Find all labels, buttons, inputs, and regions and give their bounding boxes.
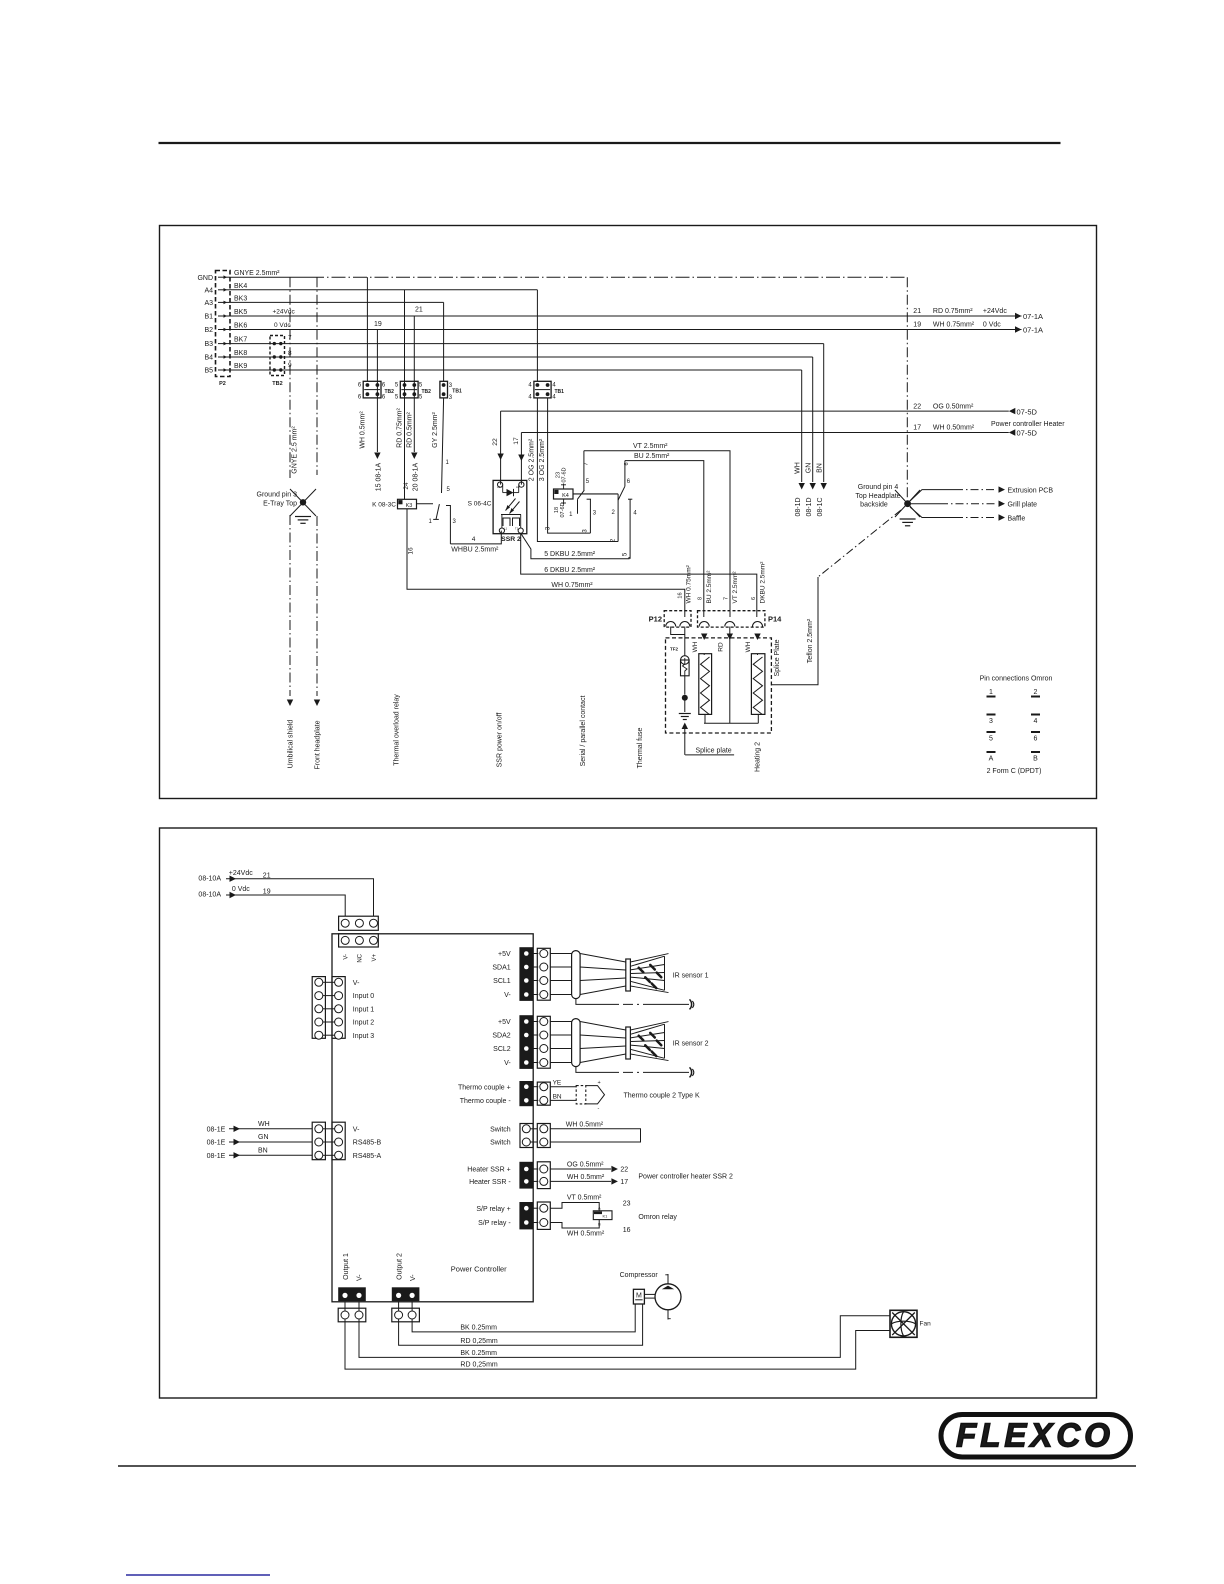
logo FLEXCO	[941, 1415, 1131, 1458]
svg-text:E-Tray Top: E-Tray Top	[263, 501, 297, 508]
wire 6 DKBU 2.5mm	[521, 533, 757, 617]
svg-text:BN: BN	[258, 1147, 268, 1154]
wire BU drop arrow	[701, 634, 707, 641]
svg-text:OG 0.50mm²: OG 0.50mm²	[933, 403, 974, 410]
connector output1	[338, 1287, 366, 1301]
svg-text:Power controller heater SSR 2: Power controller heater SSR 2	[638, 1173, 733, 1180]
svg-text:+24Vdc: +24Vdc	[983, 308, 1007, 315]
svg-text:Splice Plate: Splice Plate	[774, 639, 781, 676]
svg-text:VT 0.5mm²: VT 0.5mm²	[567, 1195, 602, 1202]
svg-text:BK9: BK9	[234, 363, 247, 370]
wire A4/BK4 row	[230, 289, 537, 291]
svg-text:Baffle: Baffle	[1008, 516, 1026, 523]
svg-text:24: 24	[403, 482, 410, 490]
svg-text:17: 17	[913, 425, 921, 432]
wire 19 0Vdc to 07-1A	[1015, 326, 1022, 332]
wire umbilical shield dash-dot	[289, 277, 291, 478]
relay K3	[398, 499, 417, 509]
svg-text:Input 0: Input 0	[353, 993, 375, 1000]
svg-text:1: 1	[989, 689, 993, 696]
wire footer rule	[118, 1465, 1136, 1467]
wire A4 drop to TB1	[536, 290, 538, 382]
node splice plate callout	[682, 723, 688, 730]
svg-text:Ground pin 3: Ground pin 3	[257, 492, 298, 499]
svg-text:RD: RD	[718, 642, 725, 652]
svg-text:Teflon 2.5mm²: Teflon 2.5mm²	[807, 618, 814, 663]
svg-text:08-10A: 08-10A	[198, 876, 221, 883]
svg-text:B2: B2	[204, 327, 213, 334]
wire P12 link	[671, 627, 685, 635]
svg-text:21: 21	[913, 308, 921, 315]
node power controller outline	[332, 934, 533, 1302]
svg-text:GNYE 2.5 mm²: GNYE 2.5 mm²	[292, 426, 299, 474]
svg-text:Fan: Fan	[920, 1321, 932, 1328]
svg-text:4: 4	[472, 536, 476, 543]
fan F1	[890, 1310, 917, 1337]
switch K4 contact A	[577, 499, 579, 514]
svg-text:WH 0.5mm²: WH 0.5mm²	[567, 1174, 605, 1181]
svg-text:WH 0.75mm²: WH 0.75mm²	[686, 564, 693, 603]
svg-text:Heater SSR -: Heater SSR -	[469, 1179, 511, 1186]
svg-text:Umbilical shield: Umbilical shield	[288, 720, 295, 769]
connector supply V-/NC/V+	[339, 916, 379, 930]
wire 17 WH 0.50mm from 07-5D	[521, 432, 1008, 434]
svg-text:BU 2.5mm²: BU 2.5mm²	[706, 570, 713, 604]
svg-text:BK 0.25mm: BK 0.25mm	[460, 1324, 497, 1331]
svg-text:Power Controller: Power Controller	[451, 1265, 507, 1274]
svg-text:08-1D: 08-1D	[806, 497, 813, 516]
svg-text:A: A	[989, 756, 994, 763]
svg-text:Switch: Switch	[490, 1140, 511, 1147]
svg-text:TB2: TB2	[385, 389, 395, 395]
svg-text:Serial / parallel contact: Serial / parallel contact	[580, 696, 587, 767]
wire RD 0,25mm (4)	[345, 1319, 890, 1369]
svg-text:Output 1: Output 1	[343, 1253, 350, 1280]
wire 2 OG 2.5mm	[537, 398, 618, 542]
svg-text:WH: WH	[745, 641, 752, 652]
ground pin 4	[895, 490, 920, 517]
wire to grill plate	[911, 503, 940, 505]
svg-text:Grill plate: Grill plate	[1008, 502, 1038, 509]
svg-text:08-10A: 08-10A	[198, 892, 221, 899]
svg-text:RS485-B: RS485-B	[353, 1140, 382, 1147]
svg-text:+5V: +5V	[498, 951, 511, 958]
svg-text:Thermo couple 2 Type K: Thermo couple 2 Type K	[624, 1092, 700, 1099]
svg-text:A3: A3	[204, 300, 213, 307]
svg-text:SCL2: SCL2	[493, 1046, 511, 1053]
ground pin 3	[290, 489, 316, 516]
svg-text:SDA1: SDA1	[492, 965, 510, 972]
svg-text:Thermo couple -: Thermo couple -	[460, 1098, 512, 1105]
wire 22 OG drop to SSR	[500, 411, 502, 485]
svg-text:SSR power on/off: SSR power on/off	[497, 713, 504, 768]
svg-text:8: 8	[698, 597, 704, 600]
wire 21 +24Vdc to 07-1A	[1015, 313, 1022, 319]
svg-text:BK4: BK4	[234, 283, 247, 290]
svg-text:Splice plate: Splice plate	[696, 748, 732, 755]
svg-text:07-1A: 07-1A	[1023, 312, 1043, 321]
svg-text:A2-: A2-	[516, 485, 520, 489]
wire to baffle	[910, 507, 955, 518]
connector RS485	[312, 1122, 325, 1160]
svg-text:Thermal fuse: Thermal fuse	[637, 727, 644, 768]
svg-text:IR sensor 1: IR sensor 1	[673, 973, 709, 980]
wire front headplate dash-dot	[316, 277, 318, 475]
svg-text:21: 21	[415, 307, 423, 314]
wire B4/BK8 row	[230, 356, 813, 358]
wire GND/GNYE row	[230, 276, 310, 278]
svg-text:07-5D: 07-5D	[1017, 429, 1038, 438]
svg-text:23: 23	[623, 1200, 631, 1207]
svg-text:Input 3: Input 3	[353, 1033, 375, 1040]
svg-text:WH 0.5mm²: WH 0.5mm²	[567, 1230, 605, 1237]
wire header rule	[159, 142, 1061, 144]
connector thermocouple pins	[519, 1081, 533, 1106]
svg-text:Top Headplate: Top Headplate	[855, 493, 900, 500]
wire RD drop	[729, 627, 731, 724]
svg-text:Heating 2: Heating 2	[755, 742, 762, 772]
svg-text:6: 6	[751, 597, 757, 600]
svg-text:GNYE 2.5mm²: GNYE 2.5mm²	[234, 270, 280, 277]
sensor IR2	[550, 1021, 571, 1023]
svg-text:Output 2: Output 2	[397, 1253, 404, 1280]
wire to extrusion PCB	[910, 490, 955, 501]
wire RD 0,25mm (2)	[399, 1304, 643, 1345]
svg-text:22: 22	[620, 1167, 628, 1174]
connector P12	[664, 611, 691, 627]
svg-text:BK5: BK5	[234, 309, 247, 316]
svg-text:WHBU 2.5mm²: WHBU 2.5mm²	[451, 547, 499, 554]
svg-text:20 08-1A: 20 08-1A	[413, 462, 420, 491]
svg-text:NC: NC	[358, 953, 364, 962]
svg-text:-: -	[598, 1106, 600, 1112]
svg-text:16: 16	[623, 1227, 631, 1234]
svg-text:S/P relay +: S/P relay +	[476, 1206, 510, 1213]
svg-text:A4: A4	[204, 287, 213, 294]
wire K4 common	[573, 493, 618, 495]
wire B5/BK9 row	[230, 369, 802, 371]
wire A3/BK3 row	[230, 301, 444, 303]
svg-text:3: 3	[989, 718, 993, 725]
svg-text:IR sensor 2: IR sensor 2	[673, 1041, 709, 1048]
svg-text:M: M	[636, 1293, 642, 1300]
wire WH 0.5mm vertical	[366, 277, 368, 381]
wire DKBU drop arrow	[754, 634, 760, 641]
svg-text:19: 19	[263, 889, 271, 896]
svg-text:V-: V-	[504, 1060, 511, 1067]
wire BK 0.25mm (1)	[412, 1304, 635, 1332]
svg-text:07-6D: 07-6D	[562, 467, 568, 482]
connector IR1 pins	[519, 947, 533, 1001]
terminal block TB1 (4/4)	[534, 381, 551, 398]
connector output2	[392, 1287, 420, 1301]
node top schematic frame	[160, 226, 1097, 799]
terminal block TB2 (6/6)	[363, 381, 381, 398]
svg-text:T1: T1	[515, 527, 519, 531]
wire B3/BK7 row	[230, 343, 824, 345]
svg-text:RD 0.75mm²: RD 0.75mm²	[933, 308, 973, 315]
svg-text:22: 22	[913, 403, 921, 410]
svg-text:B1: B1	[204, 314, 213, 321]
relay omron K	[550, 1203, 599, 1211]
svg-text:SCL1: SCL1	[493, 978, 511, 985]
svg-text:2 Form C (DPDT): 2 Form C (DPDT)	[987, 768, 1042, 775]
svg-text:7: 7	[584, 462, 590, 465]
svg-text:A1+: A1+	[497, 485, 502, 489]
wire WH drop to 08-1D	[801, 370, 803, 482]
svg-text:WH 0.75mm²: WH 0.75mm²	[551, 582, 593, 589]
svg-text:OG 0.5mm²: OG 0.5mm²	[567, 1162, 604, 1169]
svg-text:K1: K1	[603, 1213, 609, 1218]
thermal fuse TF2	[684, 627, 686, 656]
terminal block TB1 (3/3)	[440, 381, 448, 398]
solid state relay SSR2	[493, 480, 527, 533]
svg-text:Extrusion PCB: Extrusion PCB	[1008, 488, 1054, 495]
wire BN drop to 08-1C	[823, 344, 825, 482]
svg-text:Power controller Heater: Power controller Heater	[991, 421, 1065, 428]
svg-text:L1: L1	[504, 527, 508, 531]
svg-text:P14: P14	[768, 615, 782, 624]
node bottom schematic frame	[160, 828, 1097, 1398]
svg-text:GN: GN	[258, 1134, 269, 1141]
svg-text:0 Vdc: 0 Vdc	[983, 322, 1001, 329]
svg-text:V+: V+	[372, 954, 378, 962]
svg-text:BK3: BK3	[234, 295, 247, 302]
svg-text:08-1D: 08-1D	[795, 497, 802, 516]
svg-text:08-1E: 08-1E	[207, 1126, 226, 1133]
svg-text:GY 2.5mm²: GY 2.5mm²	[432, 412, 439, 448]
switch K4 contact B	[617, 494, 619, 542]
svg-text:Pin connections Omron: Pin connections Omron	[980, 676, 1053, 683]
wire WH 0.5mm 17	[550, 1180, 611, 1182]
svg-text:2 OG 2.5mm²: 2 OG 2.5mm²	[529, 438, 536, 481]
svg-text:17: 17	[620, 1179, 628, 1186]
wire OG 0.5mm 22	[550, 1168, 611, 1170]
svg-text:V-: V-	[410, 1274, 417, 1281]
wire RD 0.75mm vertical (to K3)	[404, 290, 406, 500]
svg-text:4: 4	[1034, 718, 1038, 725]
svg-text:6: 6	[1034, 736, 1038, 743]
heater R2	[751, 654, 765, 715]
wire GY 2.5mm vertical	[443, 302, 445, 381]
wire 22 OG 0.50mm from 07-5D	[501, 410, 1009, 412]
svg-text:08-1E: 08-1E	[207, 1140, 226, 1147]
wire GN drop to 08-1D	[812, 357, 814, 482]
svg-text:WH: WH	[258, 1121, 270, 1128]
wire teflon shield elbow	[818, 510, 901, 577]
svg-text:backside: backside	[860, 502, 888, 509]
sensor IR1	[550, 953, 571, 955]
svg-text:V-: V-	[353, 1126, 360, 1133]
svg-text:Switch: Switch	[490, 1126, 511, 1133]
svg-text:0 Vdc: 0 Vdc	[274, 322, 291, 329]
svg-text:GND: GND	[197, 275, 213, 282]
svg-text:6: 6	[624, 462, 630, 465]
svg-text:08-1E: 08-1E	[207, 1153, 226, 1160]
svg-text:K4: K4	[562, 493, 569, 499]
svg-text:RD 0,25mm: RD 0,25mm	[460, 1338, 498, 1345]
svg-text:V-: V-	[357, 1274, 364, 1281]
svg-text:+24Vdc: +24Vdc	[229, 870, 253, 877]
svg-text:Input 1: Input 1	[353, 1006, 375, 1013]
node splice plate box	[666, 638, 772, 733]
terminal block TB2 (7/8/9)	[270, 336, 285, 376]
svg-text:22: 22	[492, 438, 499, 446]
connector S/P relay pins	[519, 1202, 533, 1229]
svg-text:Thermal overload relay: Thermal overload relay	[394, 694, 401, 766]
svg-text:+5V: +5V	[498, 1019, 511, 1026]
svg-text:19: 19	[374, 321, 382, 328]
svg-text:K3: K3	[406, 503, 413, 509]
svg-text:08-1C: 08-1C	[817, 497, 824, 516]
wire BK 0.25mm (3)	[359, 1316, 890, 1358]
relay K4	[554, 489, 574, 499]
svg-text:07-1A: 07-1A	[1023, 326, 1043, 335]
svg-text:+: +	[598, 1080, 601, 1086]
svg-text:BN: BN	[817, 463, 824, 473]
svg-text:Heater SSR +: Heater SSR +	[467, 1167, 510, 1174]
svg-text:7: 7	[723, 597, 729, 600]
wire RD 0.5mm vertical to arrow 20 08-1A	[413, 316, 415, 452]
svg-text:B5: B5	[204, 368, 213, 375]
svg-text:P12: P12	[649, 615, 662, 624]
svg-text:FLEXCO: FLEXCO	[956, 1417, 1114, 1454]
wire WHBU 2.5mm	[450, 531, 501, 544]
svg-text:TB1: TB1	[555, 389, 565, 395]
svg-text:17: 17	[513, 437, 520, 445]
svg-text:WH: WH	[692, 641, 699, 652]
svg-text:YE: YE	[553, 1080, 562, 1087]
svg-text:TF2: TF2	[670, 647, 678, 652]
svg-text:B3: B3	[204, 341, 213, 348]
connector heater SSR pins	[519, 1162, 533, 1189]
connector switch pins	[520, 1124, 533, 1148]
svg-text:BK8: BK8	[234, 350, 247, 357]
svg-text:07-6D: 07-6D	[560, 502, 566, 517]
svg-text:TB2: TB2	[422, 389, 432, 395]
svg-text:Front headplate: Front headplate	[315, 720, 322, 769]
svg-text:WH 0.75mm²: WH 0.75mm²	[933, 322, 975, 329]
svg-text:3 OG 2.5mm²: 3 OG 2.5mm²	[539, 438, 546, 481]
wire BU 2.5mm	[625, 461, 704, 617]
wire switch loop WH 0.5mm	[550, 1129, 640, 1142]
wire 5 DKBU 2.5mm	[521, 533, 629, 559]
svg-text:16: 16	[678, 592, 684, 598]
svg-text:RD 0.75mm²: RD 0.75mm²	[397, 408, 404, 448]
wire TF2 to ground	[684, 676, 686, 695]
svg-text:RD 0.5mm²: RD 0.5mm²	[407, 411, 414, 447]
svg-text:19: 19	[913, 322, 921, 329]
connector P14	[698, 611, 765, 627]
svg-text:A: A	[598, 1205, 601, 1210]
svg-text:S 06-4C: S 06-4C	[468, 501, 492, 508]
terminal block TB2 (5/5)	[400, 381, 418, 398]
wire VT 2.5mm	[584, 451, 730, 617]
svg-text:BK 0.25mm: BK 0.25mm	[460, 1350, 497, 1357]
svg-text:WH 0.50mm²: WH 0.50mm²	[933, 425, 975, 432]
svg-text:6 DKBU 2.5mm²: 6 DKBU 2.5mm²	[544, 567, 596, 574]
wire 3 OG 2.5mm	[548, 398, 591, 533]
wire footnote underline	[126, 1574, 270, 1576]
svg-text:GN: GN	[806, 463, 813, 474]
svg-text:V-: V-	[504, 992, 511, 999]
wire heater return bus	[704, 722, 758, 724]
wire K3 coil down / WH 0.75 line	[407, 509, 685, 617]
svg-text:VT 2.5mm²: VT 2.5mm²	[633, 443, 668, 450]
wire 17 WH drop to SSR	[520, 433, 522, 485]
svg-text:Compressor: Compressor	[620, 1272, 659, 1279]
svg-text:16: 16	[408, 547, 415, 555]
svg-text:WH 0.5mm²: WH 0.5mm²	[566, 1121, 604, 1128]
svg-text:15 08-1A: 15 08-1A	[376, 462, 383, 491]
svg-text:21: 21	[263, 873, 271, 880]
svg-text:DKBU 2.5mm²: DKBU 2.5mm²	[759, 561, 766, 604]
svg-text:SSR 2: SSR 2	[501, 536, 521, 543]
switch serial contact S1	[417, 503, 434, 505]
svg-text:SDA2: SDA2	[492, 1033, 510, 1040]
svg-text:VT 2.5mm²: VT 2.5mm²	[732, 571, 739, 604]
wire B1/+24Vdc row (21)	[230, 315, 1022, 317]
svg-text:0 Vdc: 0 Vdc	[232, 886, 250, 893]
wire drop 19/B2 to arrow 15 08-1A	[376, 330, 378, 453]
svg-text:+24Vdc: +24Vdc	[273, 309, 296, 316]
heater R1	[699, 654, 712, 715]
svg-text:RS485-A: RS485-A	[353, 1153, 382, 1160]
svg-text:Omron relay: Omron relay	[638, 1214, 677, 1221]
svg-text:V-: V-	[344, 954, 350, 960]
svg-text:BN: BN	[553, 1093, 562, 1100]
svg-text:BK6: BK6	[234, 323, 247, 330]
svg-text:P2: P2	[219, 381, 226, 387]
svg-text:RD 0,25mm: RD 0,25mm	[460, 1362, 498, 1369]
svg-text:WH: WH	[795, 462, 802, 474]
svg-text:K 08-3C: K 08-3C	[372, 502, 396, 509]
svg-text:Thermo couple +: Thermo couple +	[458, 1084, 511, 1091]
svg-text:TB2: TB2	[272, 381, 282, 387]
wire B2/0Vdc row (19)	[230, 329, 1022, 331]
svg-text:07-5D: 07-5D	[1017, 407, 1038, 416]
svg-text:BU 2.5mm²: BU 2.5mm²	[634, 453, 670, 460]
wire shield to ground pin 4	[906, 277, 908, 500]
svg-text:TB1: TB1	[452, 389, 462, 395]
svg-text:5: 5	[989, 736, 993, 743]
connector IR2 pins	[519, 1015, 533, 1069]
connector inputs	[312, 977, 325, 1039]
svg-text:WH 0.5mm²: WH 0.5mm²	[360, 411, 367, 449]
svg-text:B: B	[598, 1221, 601, 1226]
svg-text:Input 2: Input 2	[353, 1020, 375, 1027]
connector P2	[216, 271, 231, 377]
svg-text:V-: V-	[353, 980, 360, 987]
svg-text:2: 2	[1034, 689, 1038, 696]
svg-text:B4: B4	[204, 355, 213, 362]
svg-text:5 DKBU 2.5mm²: 5 DKBU 2.5mm²	[544, 551, 596, 558]
svg-text:S/P relay -: S/P relay -	[478, 1220, 511, 1227]
svg-text:Ground pin 4: Ground pin 4	[858, 484, 899, 491]
svg-text:B: B	[1033, 756, 1038, 763]
svg-text:BK7: BK7	[234, 337, 247, 344]
